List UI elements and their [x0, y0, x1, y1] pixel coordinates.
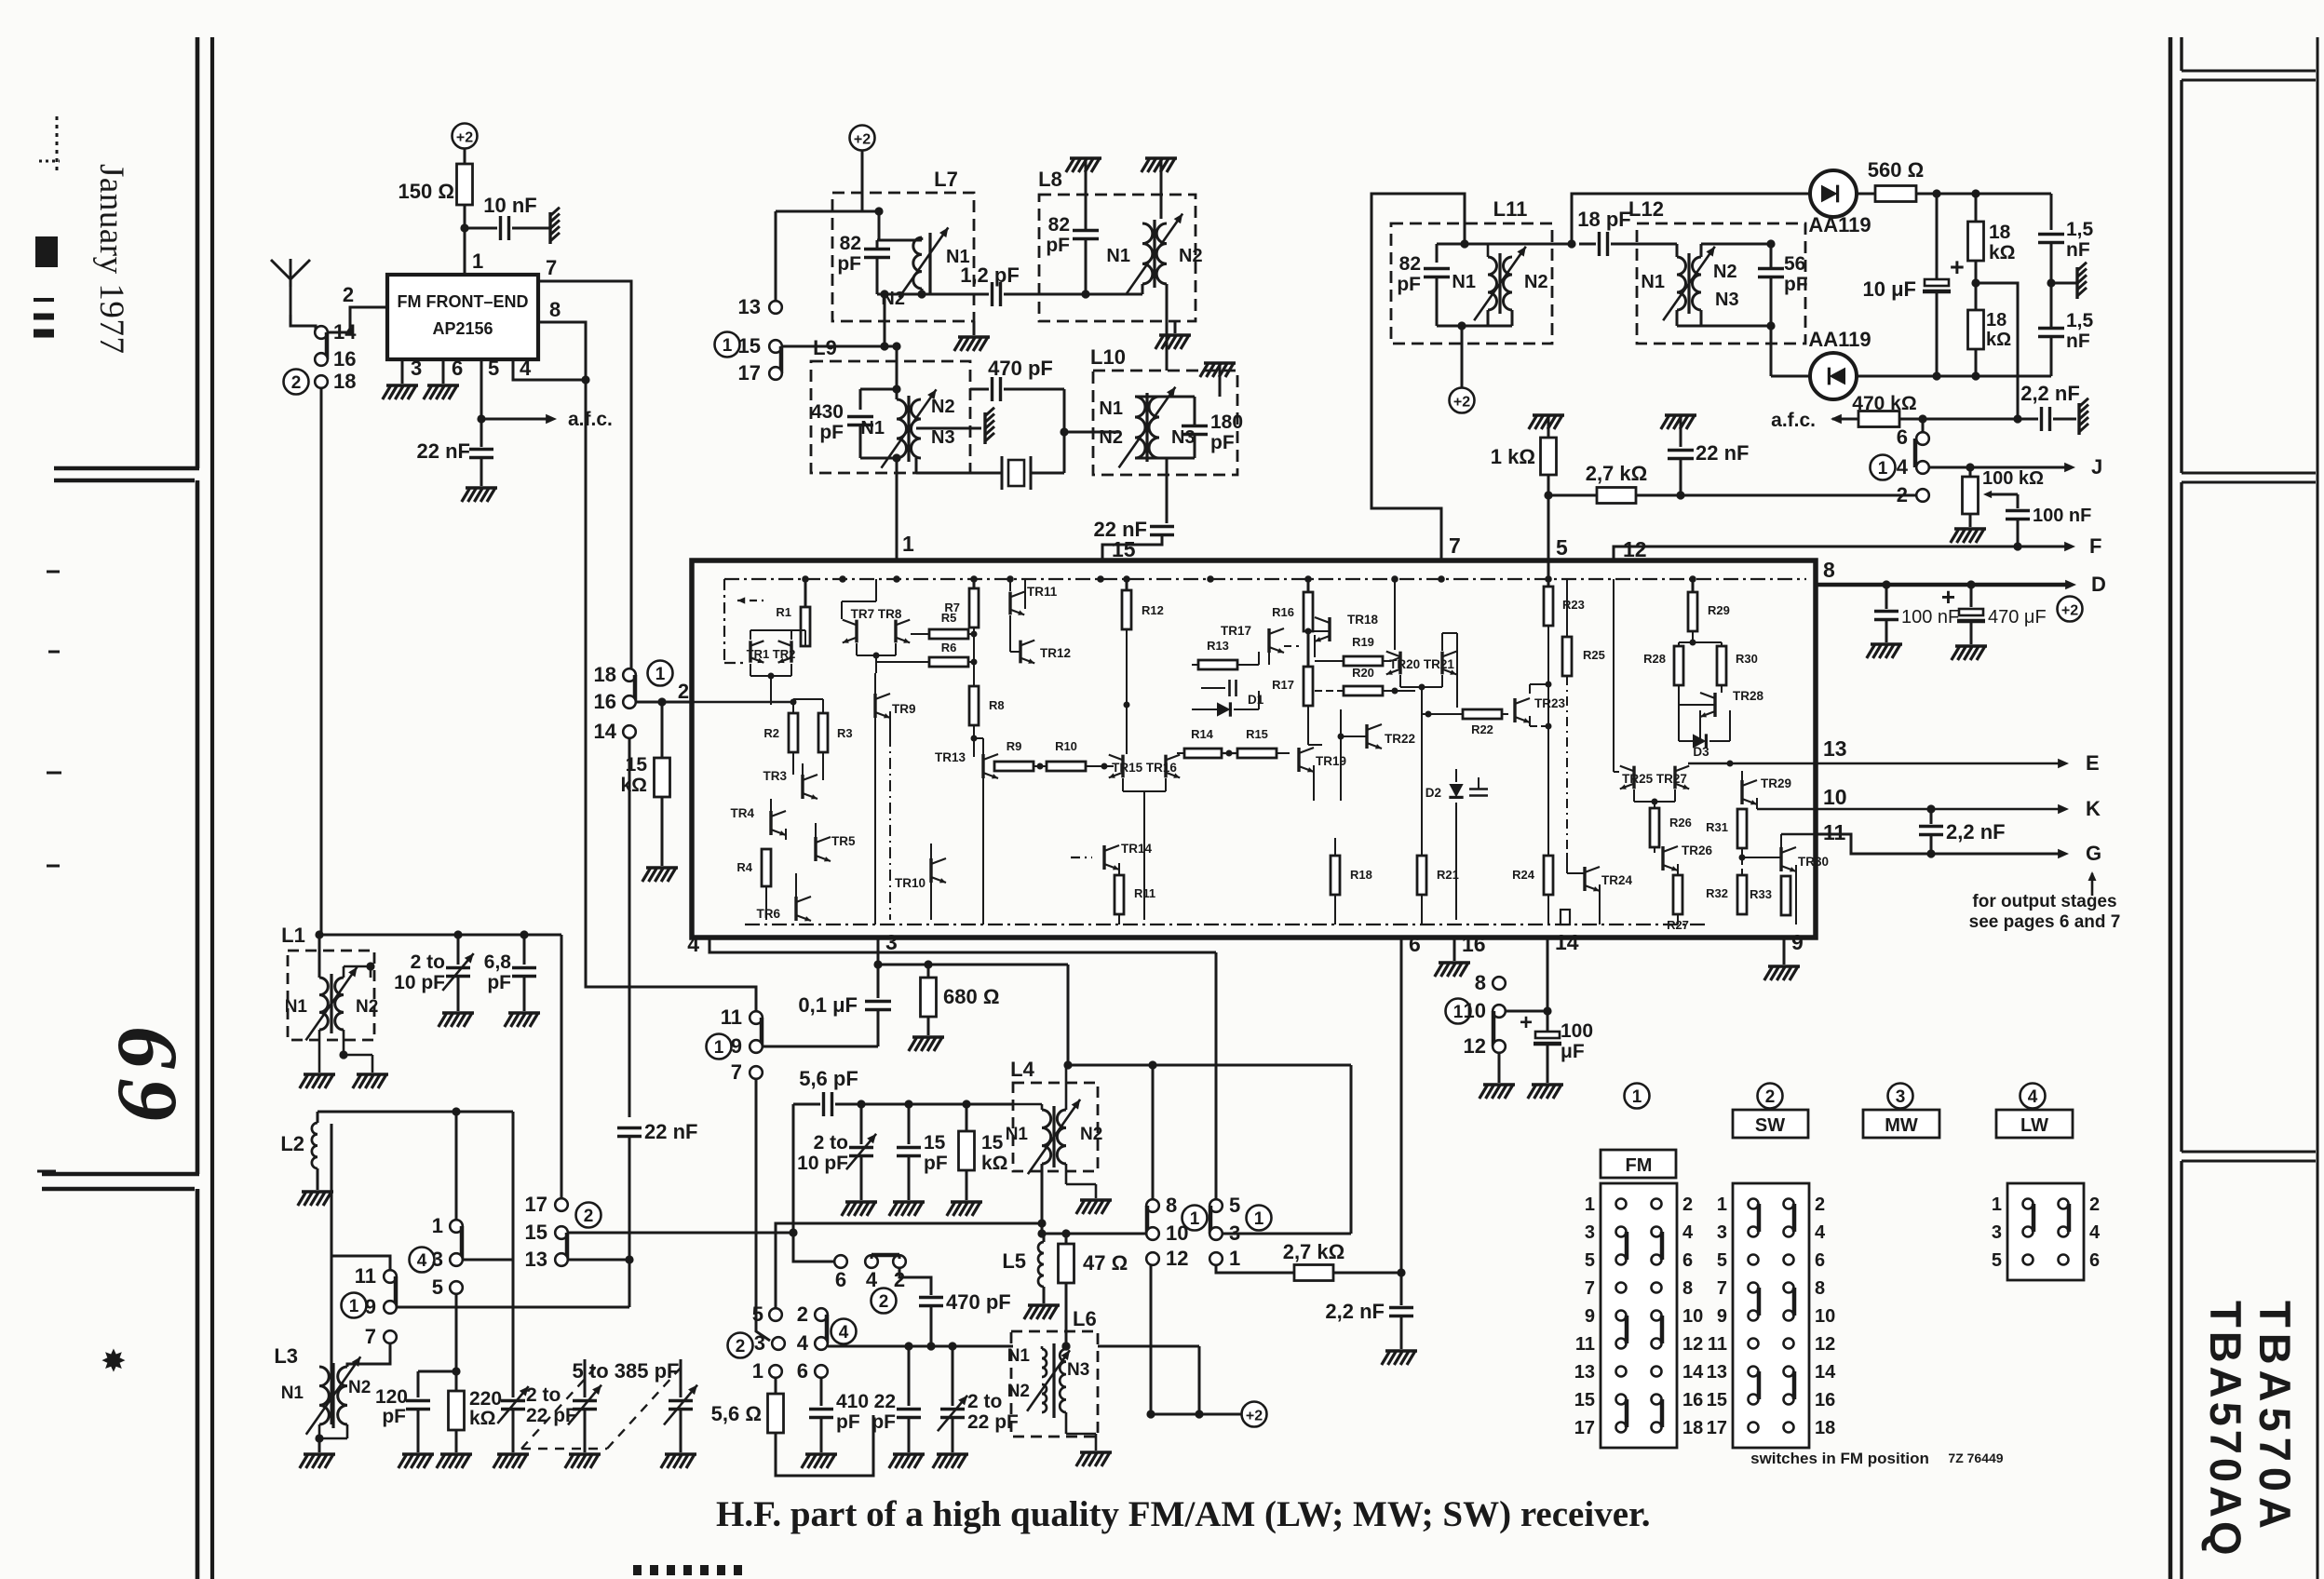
svg-text:16: 16	[594, 690, 616, 713]
svg-text:13: 13	[738, 295, 761, 318]
svg-text:16: 16	[333, 347, 356, 371]
switch wafer number 1 (t2)	[1247, 1206, 1272, 1231]
svg-text:1: 1	[432, 1214, 443, 1237]
transistor TR10	[929, 858, 932, 883]
svg-text:10 μF: 10 μF	[1863, 277, 1916, 301]
svg-text:16: 16	[1815, 1390, 1835, 1410]
svg-text:L8: L8	[1038, 168, 1062, 191]
transistor TR18	[1328, 617, 1331, 641]
svg-text:1: 1	[1190, 1209, 1200, 1229]
transistors TR1 TR2	[749, 641, 751, 662]
resistor R28	[1674, 646, 1683, 685]
capacitor 6,8 pF	[523, 935, 526, 965]
svg-text:5: 5	[488, 357, 499, 380]
svg-text:N2: N2	[1007, 1382, 1030, 1401]
wire 13 to 22nF column	[568, 1259, 629, 1262]
electrolytic 470 uF	[1970, 585, 1973, 607]
svg-text:see pages 6 and 7: see pages 6 and 7	[1969, 912, 2121, 932]
detector bottom rail	[1857, 375, 2051, 378]
wire crystal to L10	[1063, 389, 1066, 473]
coil unit L9 dashed box	[811, 361, 970, 473]
svg-text:2 to: 2 to	[814, 1132, 848, 1154]
svg-text:TR11: TR11	[1027, 585, 1058, 599]
svg-text:5: 5	[1717, 1250, 1727, 1271]
capacitor 22 pF	[908, 1346, 911, 1406]
wire +2 to 150 ohm	[464, 148, 466, 164]
svg-text:6: 6	[1409, 932, 1421, 956]
switch wafer number 1 (det)	[1871, 455, 1896, 480]
wire terminal 12 to ground	[1498, 1053, 1501, 1083]
svg-text:K: K	[2086, 797, 2101, 820]
svg-text:N2: N2	[348, 1378, 371, 1397]
coil L9 N1/N2/N3	[897, 399, 907, 458]
svg-text:2: 2	[1765, 1087, 1776, 1107]
svg-text:7: 7	[1449, 533, 1461, 558]
svg-text:11: 11	[1575, 1334, 1595, 1355]
svg-text:N1: N1	[285, 997, 308, 1017]
diode AA119 (upper)	[1810, 170, 1857, 217]
svg-text:7: 7	[731, 1060, 742, 1084]
transistors TR7 TR8	[855, 620, 858, 643]
svg-text:N1: N1	[1099, 398, 1123, 419]
svg-text:470 pF: 470 pF	[946, 1290, 1011, 1314]
IC internal supply rail (dash-dot)	[724, 578, 1806, 580]
resistor 15 kohm (osc)	[966, 1104, 968, 1131]
switch link 11-9 (L3)	[394, 1276, 399, 1307]
svg-text:6: 6	[452, 357, 463, 380]
coil L1 N1/N2	[319, 978, 328, 1030]
svg-text:N1: N1	[1641, 272, 1665, 292]
svg-text:R12: R12	[1142, 603, 1164, 617]
switch wafer number 1 (tuner)	[715, 332, 740, 358]
svg-text:L11: L11	[1493, 197, 1528, 221]
svg-text:22 nF: 22 nF	[644, 1120, 697, 1143]
capacitor 470 pF (osc)	[899, 1268, 931, 1295]
svg-text:L10: L10	[1090, 345, 1126, 369]
svg-text:1,5: 1,5	[2066, 219, 2094, 240]
svg-text:R14: R14	[1191, 727, 1214, 741]
svg-text:56: 56	[1784, 253, 1805, 275]
svg-text:N2: N2	[1080, 1125, 1102, 1144]
pin 6 stub and label	[442, 359, 445, 384]
capacitor 22 nF (pin 5 line)	[1665, 413, 1696, 417]
wire 15 to oscillator column	[567, 1232, 793, 1235]
wire 15 to L9/L7	[782, 345, 897, 348]
svg-text:N1: N1	[1007, 1346, 1031, 1366]
output J line	[1929, 466, 2069, 469]
wire terminal 7 down to oscillator switch	[756, 1079, 770, 1341]
wire terminal 16 to IC pin 2	[636, 701, 692, 704]
svg-text:R26: R26	[1669, 816, 1692, 830]
terminal 3 (ant)	[450, 1253, 463, 1266]
svg-text:18: 18	[1682, 1418, 1703, 1438]
svg-text:TR19: TR19	[1316, 754, 1346, 768]
IC pin 2 internal wire	[692, 701, 793, 703]
wire to terminal 1 column	[455, 1112, 458, 1220]
terminal 17 (AM ant)	[555, 1198, 568, 1211]
capacitor 82 pF (L7)	[864, 248, 890, 250]
svg-text:kΩ: kΩ	[1986, 330, 2011, 350]
svg-text:TR20 TR21: TR20 TR21	[1389, 657, 1454, 671]
svg-text:TR10: TR10	[895, 876, 926, 890]
switch wafer number 2	[284, 370, 309, 395]
svg-text:R29: R29	[1708, 603, 1730, 617]
wire 18k junction	[1975, 261, 1978, 310]
svg-text:22: 22	[874, 1391, 896, 1412]
wire terminal 12 to +2 rail	[1150, 1265, 1153, 1414]
ground (120 pF)	[402, 1452, 434, 1456]
wire terminal 1 to 2,7 kohm	[1216, 1265, 1222, 1273]
svg-text:3: 3	[411, 357, 422, 380]
svg-text:N3: N3	[1067, 1360, 1089, 1380]
svg-text:11: 11	[355, 1264, 376, 1288]
svg-text:1: 1	[1585, 1194, 1595, 1215]
svg-text:F: F	[2089, 534, 2101, 558]
resistor 560 ohm	[1857, 193, 1875, 196]
svg-text:pF: pF	[837, 253, 861, 275]
switch link 4-2	[871, 1253, 899, 1258]
svg-text:1: 1	[1229, 1247, 1240, 1270]
svg-text:18: 18	[333, 370, 356, 393]
svg-text:7: 7	[1585, 1278, 1595, 1299]
resistor 150 ohm	[457, 164, 473, 205]
terminal 14 (IC side)	[623, 725, 636, 738]
right margin rule middle	[2182, 472, 2316, 475]
svg-text:13: 13	[525, 1248, 547, 1271]
terminal 1 (t2)	[1209, 1252, 1223, 1265]
svg-text:TBA570AQ: TBA570AQ	[2201, 1301, 2250, 1559]
svg-text:TR5: TR5	[831, 834, 856, 848]
switch wafer number 2 (AM ant)	[576, 1203, 601, 1228]
terminal 4 (det)	[1916, 461, 1929, 474]
svg-text:120: 120	[375, 1386, 408, 1408]
svg-text:pF: pF	[1210, 432, 1235, 453]
svg-text:D2: D2	[1425, 786, 1441, 800]
svg-text:kΩ: kΩ	[469, 1408, 496, 1429]
svg-text:4: 4	[1897, 455, 1909, 479]
transistor TR24	[1583, 867, 1586, 891]
ground (22 pF)	[893, 1452, 925, 1456]
wire IC pin 7 up to L11	[1371, 194, 1465, 560]
svg-text:8: 8	[1166, 1194, 1177, 1217]
svg-text:18 pF: 18 pF	[1577, 208, 1630, 231]
svg-text:R22: R22	[1471, 722, 1493, 736]
svg-text:1: 1	[472, 250, 483, 273]
transistor TR17	[1267, 628, 1270, 653]
transistor TR22	[1365, 724, 1368, 749]
ground (pin 16)	[1439, 961, 1470, 965]
terminal 12 (t1)	[1146, 1252, 1159, 1265]
coil unit L1 dashed box	[288, 951, 374, 1040]
terminal 8 (pin14 group)	[1493, 977, 1506, 990]
output G line	[1816, 834, 2061, 854]
ground (220 kohm)	[440, 1452, 472, 1456]
coil L12 N1 N2 N3	[1677, 257, 1686, 310]
svg-text:17: 17	[1574, 1418, 1595, 1438]
trimmer 2 to 22 pF (ant)	[512, 1260, 515, 1397]
L6 wires	[1041, 1346, 1044, 1349]
wire L2 top rail	[318, 1111, 513, 1113]
left margin horizontal rule lower	[42, 1172, 199, 1177]
ground (L1 right)	[357, 1073, 388, 1076]
svg-text:N3: N3	[1171, 427, 1196, 448]
svg-text:TR28: TR28	[1733, 689, 1764, 703]
svg-text:4: 4	[866, 1268, 878, 1291]
wire 10 nF to ground wall	[512, 227, 550, 230]
band label MW box	[1863, 1110, 1939, 1138]
terminal 16 (IC side)	[623, 695, 636, 709]
integrated circuit TBA570 outline	[692, 560, 1816, 938]
gang coupling dashed lines	[521, 1367, 596, 1449]
svg-text:TR29: TR29	[1761, 776, 1791, 790]
svg-text:a.f.c.: a.f.c.	[568, 409, 613, 430]
svg-text:N1: N1	[1006, 1125, 1029, 1144]
switch wafer number 4 (mix)	[831, 1319, 857, 1344]
band switch number 1	[1625, 1084, 1650, 1109]
wire 13/15 junction to L7	[776, 210, 862, 213]
resistor R31	[1737, 809, 1747, 848]
svg-text:13: 13	[1707, 1362, 1727, 1383]
terminal 2 (det)	[1916, 489, 1929, 502]
switch wafer number 4 (ant)	[410, 1248, 435, 1273]
switch wafer number 2 (osc)	[871, 1289, 897, 1314]
svg-text:LW: LW	[2020, 1115, 2048, 1136]
wire 0,1 uF to terminal 9	[763, 1046, 878, 1048]
resistor R21	[1421, 708, 1423, 856]
switch unit SW	[1733, 1183, 1809, 1448]
capacitor 180 pF	[1182, 425, 1208, 427]
coil unit L12 dashed box	[1637, 223, 1805, 344]
capacitor 22 nF (AM line)	[617, 1127, 642, 1129]
wire junction right	[1976, 283, 2018, 419]
svg-text:+: +	[1950, 253, 1965, 281]
note arrow up	[2091, 873, 2094, 896]
coil unit L10 dashed box	[1093, 371, 1237, 475]
L7 bottom wires	[877, 293, 943, 296]
L4 wires	[1013, 1103, 1042, 1106]
svg-text:D: D	[2091, 573, 2106, 596]
svg-text:pF: pF	[1046, 235, 1070, 256]
resistor 18 kohm (lower)	[1968, 310, 1984, 349]
terminal 9 (i.f.)	[750, 1040, 763, 1053]
terminal 17	[769, 367, 782, 380]
terminal 3 (t2)	[1209, 1227, 1223, 1240]
L10 inner wires	[1135, 396, 1195, 398]
wire to output G	[1781, 833, 1816, 835]
svg-text:2: 2	[736, 1337, 746, 1356]
svg-text:7: 7	[546, 256, 557, 279]
svg-text:R17: R17	[1272, 678, 1294, 692]
terminal 10 (i.f. t)	[1146, 1227, 1159, 1240]
resistor R11	[1115, 875, 1124, 914]
svg-text:pF: pF	[1784, 274, 1808, 295]
transistor TR11	[1008, 592, 1011, 615]
a.f.c. line	[1832, 418, 1858, 421]
svg-text:H.F. part of a high quality FM: H.F. part of a high quality FM/AM (LW; M…	[716, 1494, 1651, 1534]
svg-text:2: 2	[879, 1292, 889, 1312]
svg-text:R32: R32	[1706, 886, 1728, 900]
svg-text:470 μF: 470 μF	[1988, 607, 2047, 628]
transistor TR19	[1297, 748, 1300, 772]
pin 3 stub and label	[401, 359, 404, 384]
transistor TR28	[1713, 693, 1716, 717]
resistor R24	[1544, 856, 1553, 895]
svg-text:nF: nF	[2066, 331, 2090, 352]
transistor TR5	[814, 837, 817, 861]
ground (L6)	[1080, 1451, 1112, 1454]
svg-text:SW: SW	[1755, 1115, 1785, 1136]
switch wafer number 1 (L3)	[342, 1293, 367, 1318]
svg-text:pF: pF	[836, 1411, 860, 1433]
crystal resonator	[1008, 460, 1024, 486]
svg-text:2,2 nF: 2,2 nF	[2020, 382, 2080, 405]
L9 tap ground wire	[916, 427, 981, 430]
capacitor 410 pF	[820, 1378, 823, 1406]
resistor R19	[1344, 656, 1383, 666]
svg-text:R10: R10	[1055, 739, 1077, 753]
svg-text:R2: R2	[763, 726, 779, 740]
svg-text:MW: MW	[1885, 1115, 1918, 1136]
svg-text:TR3: TR3	[763, 769, 787, 783]
ground (2-10 pF osc)	[845, 1200, 877, 1204]
svg-text:R25: R25	[1583, 648, 1605, 662]
svg-text:N2: N2	[1713, 262, 1737, 282]
svg-text:2: 2	[584, 1207, 594, 1226]
svg-text:2,2 nF: 2,2 nF	[1946, 820, 2006, 843]
coil L4 N1/N2	[1042, 1110, 1051, 1164]
svg-text:3: 3	[885, 930, 898, 954]
coil L5	[1038, 1242, 1044, 1287]
svg-text:6: 6	[1682, 1250, 1693, 1271]
band switch number 4	[2020, 1084, 2046, 1109]
wire to output K	[1757, 808, 1816, 810]
svg-text:R31: R31	[1706, 820, 1728, 834]
svg-text:5,6 pF: 5,6 pF	[799, 1067, 858, 1090]
svg-text:R24: R24	[1512, 868, 1535, 882]
svg-text:12: 12	[1464, 1034, 1486, 1058]
switch link 2-4 (mix)	[825, 1315, 830, 1343]
resistor R16	[1307, 579, 1310, 592]
svg-text:14: 14	[1682, 1362, 1704, 1383]
IC pin 16 wire	[1453, 938, 1456, 961]
coil unit L7 dashed box	[832, 193, 974, 321]
ground wall (2,2 nF)	[2077, 403, 2080, 435]
svg-text:R7: R7	[944, 601, 960, 614]
switch link 15-17	[779, 346, 784, 373]
wire 22 nF to IC pin 15	[1102, 535, 1162, 560]
svg-text:2: 2	[1682, 1194, 1693, 1215]
svg-text:13: 13	[1823, 736, 1847, 761]
svg-text:430: 430	[811, 401, 844, 423]
svg-text:1,2 pF: 1,2 pF	[960, 263, 1020, 287]
ground (6,8 pF)	[508, 1011, 540, 1015]
switch link 1-3	[460, 1226, 465, 1260]
svg-text:10 pF: 10 pF	[394, 972, 445, 993]
svg-text:15: 15	[525, 1221, 547, 1244]
ground (100 uF)	[1532, 1083, 1563, 1086]
svg-text:4: 4	[417, 1251, 427, 1271]
resistor R12	[1126, 579, 1128, 590]
diode AA119 (lower)	[1810, 353, 1857, 399]
svg-text:2: 2	[797, 1302, 808, 1326]
resistor R7	[973, 579, 976, 588]
svg-text:47 Ω: 47 Ω	[1083, 1251, 1128, 1275]
terminal 18 (antenna)	[315, 375, 328, 388]
svg-text:12: 12	[1682, 1334, 1703, 1355]
svg-text:TR6: TR6	[756, 907, 780, 921]
svg-text:3: 3	[1585, 1222, 1595, 1243]
svg-text:L12: L12	[1628, 197, 1664, 221]
ground (15 kohm)	[646, 866, 678, 870]
svg-text:10: 10	[1682, 1306, 1703, 1327]
svg-text:G: G	[2086, 842, 2101, 865]
svg-text:100 kΩ: 100 kΩ	[1982, 468, 2044, 489]
svg-text:7: 7	[1717, 1278, 1727, 1299]
terminal 10 (pin14 group)	[1493, 1005, 1506, 1018]
resistor R30	[1717, 646, 1726, 685]
svg-text:TR23: TR23	[1534, 696, 1566, 710]
IC pin 4 wire	[709, 938, 1216, 952]
svg-text:N1: N1	[1452, 272, 1476, 292]
svg-text:N1: N1	[1106, 246, 1130, 266]
svg-text:3: 3	[432, 1248, 443, 1271]
resistor R27	[1673, 875, 1682, 914]
ground (pin 6)	[427, 384, 459, 387]
switch wafer number 2 (mix)	[728, 1333, 753, 1358]
transistor TR12	[1019, 641, 1021, 664]
supply terminal +2 (L7)	[850, 126, 875, 151]
svg-text:2: 2	[343, 283, 354, 306]
svg-text:N1: N1	[860, 418, 885, 439]
svg-text:R13: R13	[1207, 639, 1229, 653]
svg-text:N1: N1	[281, 1383, 304, 1403]
ground (2,2 nF AM)	[1385, 1349, 1417, 1353]
tuning gang capacitor b	[680, 1359, 682, 1397]
resistor R8	[969, 686, 979, 725]
svg-text:R23: R23	[1562, 598, 1585, 612]
svg-text:7: 7	[365, 1325, 376, 1348]
resistor R2	[792, 702, 794, 713]
ground (470 uF)	[1955, 644, 1987, 648]
terminal 16	[315, 353, 328, 366]
resistor R29	[1692, 579, 1695, 592]
wire 150 ohm to node	[464, 205, 466, 275]
wire node to 10 nF	[465, 227, 497, 230]
svg-text:R33: R33	[1750, 887, 1772, 901]
svg-text:+2: +2	[1453, 395, 1470, 411]
transistor TR6	[794, 897, 797, 921]
svg-text:January 1977: January 1977	[92, 164, 130, 354]
svg-text:2,7 kΩ: 2,7 kΩ	[1586, 462, 1648, 485]
wire TR13 emitter rail	[982, 778, 984, 924]
pin 7 wire to terminal 18 column	[538, 281, 631, 668]
svg-text:410: 410	[836, 1391, 869, 1412]
svg-text:+2: +2	[456, 130, 473, 146]
terminal 13 (AM ant)	[555, 1253, 568, 1266]
resistor R14	[1184, 749, 1222, 758]
diode D1 and cap	[1201, 687, 1225, 689]
svg-text:AP2156: AP2156	[432, 319, 493, 338]
svg-text:R19: R19	[1352, 635, 1374, 649]
svg-text:L4: L4	[1010, 1058, 1034, 1081]
svg-text:17: 17	[525, 1193, 547, 1216]
svg-text:D1: D1	[1248, 693, 1264, 707]
resistor 680 ohm	[878, 964, 928, 966]
wire L11 to +2	[1461, 326, 1464, 388]
svg-text:680 Ω: 680 Ω	[943, 985, 999, 1008]
ground (410 pF)	[805, 1452, 837, 1456]
transistors TR20 TR21	[1398, 652, 1401, 675]
